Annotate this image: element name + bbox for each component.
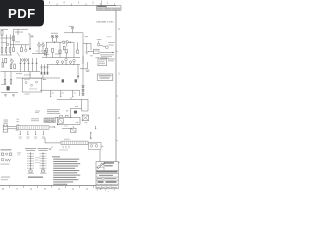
svg-text:GND ANA. LOGIC: GND ANA. LOGIC [96,20,114,23]
svg-text:PDF: PDF [8,6,36,21]
